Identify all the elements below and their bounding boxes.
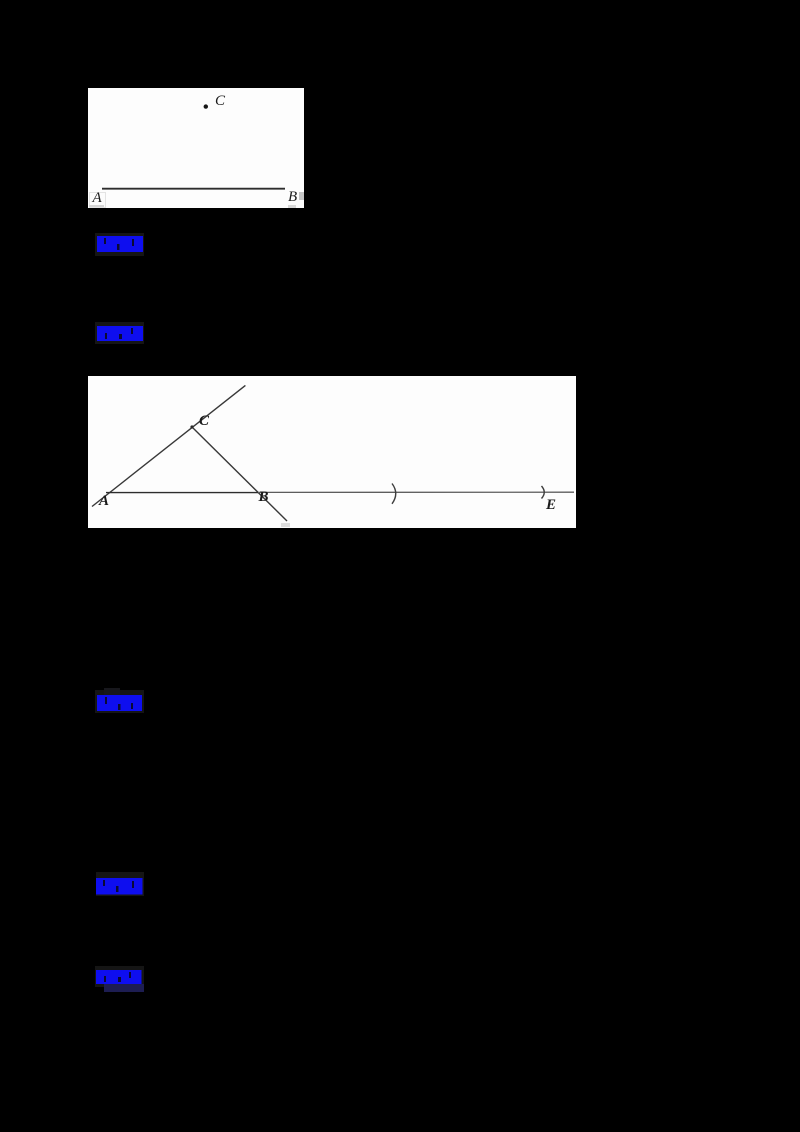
ray B to E and beyond [258,491,574,493]
link label 2 [95,322,144,344]
point C dot [204,104,208,108]
label C [199,414,209,429]
handle strip below B [288,205,296,208]
handle strip below A [89,205,104,208]
link label 3 [95,690,144,713]
point C dot [190,425,193,428]
dark underline row below label 5 [104,984,144,992]
arc mark 1 [392,484,396,504]
segment A to B [106,492,258,494]
segment AB [102,188,285,190]
label A [93,191,102,206]
handle box around A [89,192,106,208]
ray through A and C [92,385,245,506]
segment C through B extended [192,427,287,521]
figure panel 1 (point C above segment AB) [88,88,304,208]
label B [288,190,297,205]
label C [215,94,225,109]
label E [546,498,556,513]
figure panel 2 (angle construction A,B,C,E) [88,376,576,528]
faint handle mark near lower line end [281,523,290,527]
handle square right of B [299,192,304,200]
link label 1 [95,233,144,256]
link label 4 [96,872,144,896]
label A [99,494,109,509]
arc mark 2 at E [542,486,545,499]
link label 5 [95,966,144,987]
label B [259,490,269,505]
